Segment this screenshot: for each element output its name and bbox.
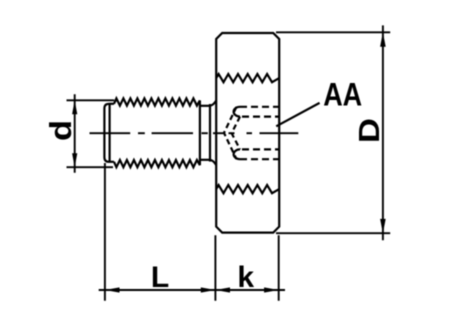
- node dimension L arrows: [105, 287, 120, 292]
- node dimension L k line: [99, 289, 285, 291]
- node thread runout: [200, 100, 216, 165]
- node dimension d extension lines: [67, 94, 115, 173]
- node dimension D arrows: [380, 32, 386, 47]
- node dimension D line: [382, 25, 384, 240]
- wire centerline: [90, 132, 299, 134]
- node shaft thread bottom zigzag: [114, 160, 200, 167]
- node head knurl bottom: [216, 185, 279, 193]
- node shaft thread top zigzag: [114, 98, 200, 105]
- node drill cone inner chevron: [232, 117, 240, 150]
- node dimension L k extension lines: [99, 163, 285, 301]
- node dimension D extension lines: [276, 25, 390, 240]
- node dimension k arrows: [215, 287, 230, 292]
- svg-text:k: k: [237, 261, 254, 294]
- node dimension d line: [74, 94, 76, 173]
- node head outline: [216, 33, 279, 233]
- node hole thread-end hooks: [234, 107, 240, 117]
- wire leader to AA: [276, 103, 319, 126]
- svg-text:D: D: [354, 118, 386, 143]
- node drill cone outer chevron: [224, 107, 237, 159]
- svg-text:d: d: [43, 120, 78, 141]
- node dimension d arrows: [72, 100, 77, 114]
- node tapped hole hidden lines: [240, 107, 279, 159]
- svg-text:L: L: [151, 261, 169, 294]
- svg-text:AA: AA: [323, 77, 362, 113]
- node head knurl top: [216, 74, 279, 82]
- node screw shaft outline: [104, 104, 114, 162]
